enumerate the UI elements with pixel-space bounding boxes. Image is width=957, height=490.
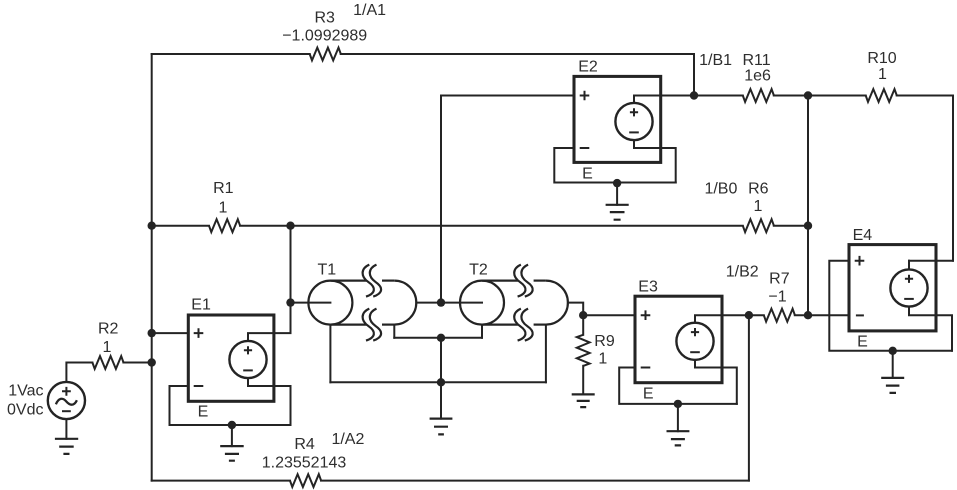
svg-text:T1: T1 [317,262,336,279]
svg-text:1: 1 [102,339,111,356]
svg-text:1: 1 [878,66,887,83]
svg-text:E2: E2 [578,58,598,75]
svg-text:E3: E3 [638,279,658,296]
svg-text:E: E [857,334,868,351]
svg-text:1: 1 [219,199,228,216]
svg-text:E4: E4 [853,227,873,244]
svg-text:1/A2: 1/A2 [331,431,364,448]
svg-text:1: 1 [754,198,763,215]
svg-text:E: E [582,166,593,183]
svg-text:E: E [198,404,209,421]
svg-text:R3: R3 [314,10,335,27]
svg-text:1/B2: 1/B2 [726,264,759,281]
svg-text:1: 1 [598,351,607,368]
svg-text:E: E [643,386,654,403]
svg-text:−1.0992989: −1.0992989 [282,28,367,45]
svg-text:1Vac: 1Vac [8,383,43,400]
svg-text:1/B0: 1/B0 [704,181,737,198]
svg-text:R6: R6 [748,181,769,198]
svg-text:R1: R1 [213,180,234,197]
svg-text:R4: R4 [294,436,315,453]
svg-text:R7: R7 [769,270,790,287]
svg-text:R10: R10 [867,50,896,67]
svg-text:1/B1: 1/B1 [699,52,732,69]
svg-text:R2: R2 [98,321,119,338]
svg-text:1.23552143: 1.23552143 [262,455,347,472]
svg-text:1/A1: 1/A1 [353,2,386,19]
svg-text:−1: −1 [768,288,786,305]
svg-text:0Vdc: 0Vdc [7,401,43,418]
svg-text:R9: R9 [594,333,615,350]
svg-text:1e6: 1e6 [744,68,771,85]
svg-text:T2: T2 [469,262,488,279]
svg-text:E1: E1 [191,296,211,313]
svg-text:R11: R11 [743,52,771,69]
